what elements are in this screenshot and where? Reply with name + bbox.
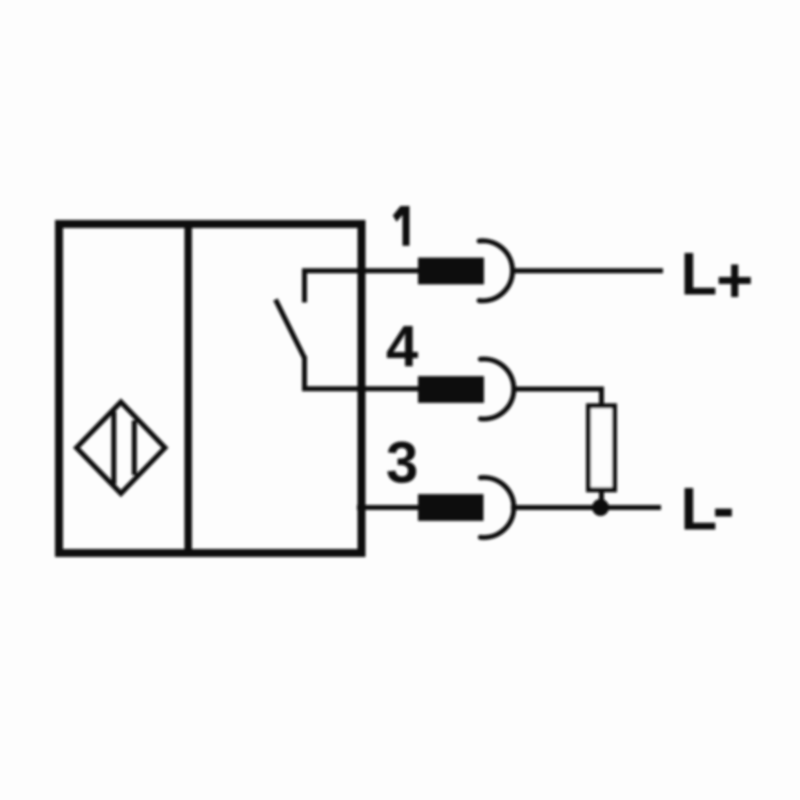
wire: sensor body to pin 3 contact <box>357 505 420 510</box>
wire: resistor to junction on L- line <box>599 492 604 508</box>
diamond inner line left <box>111 412 116 485</box>
pin 4 socket arc <box>480 359 513 419</box>
svg-text:4: 4 <box>386 314 418 379</box>
wire: switch bottom terminal to pin 4 contact <box>305 356 421 389</box>
diamond inner line right <box>132 421 137 476</box>
pin 3 socket arc <box>480 477 513 537</box>
proximity sensor symbol: diamond <box>77 402 166 494</box>
wire: pin 3 to L- <box>511 505 661 510</box>
pin 4 contact (black bar) <box>418 376 484 403</box>
load resistor <box>589 406 615 490</box>
svg-text:-: - <box>713 469 735 543</box>
svg-text:L: L <box>681 241 718 308</box>
switch S blade (NO contact) <box>276 300 305 359</box>
pin 3 contact (black bar) <box>418 494 484 521</box>
svg-text:3: 3 <box>386 431 418 496</box>
pin 1 contact (black bar) <box>418 258 484 285</box>
wire: switch top terminal to pin 1 contact <box>305 271 421 303</box>
junction node (dot) <box>592 499 609 516</box>
wire: pin 1 to L+ <box>511 268 663 273</box>
pin number 1 <box>393 206 410 246</box>
sensor body outline <box>59 224 362 553</box>
wire: pin 4 to load resistor <box>512 389 602 404</box>
svg-text:+: + <box>716 244 753 316</box>
sensor body divider <box>184 221 192 556</box>
pin 1 socket arc <box>479 241 512 301</box>
